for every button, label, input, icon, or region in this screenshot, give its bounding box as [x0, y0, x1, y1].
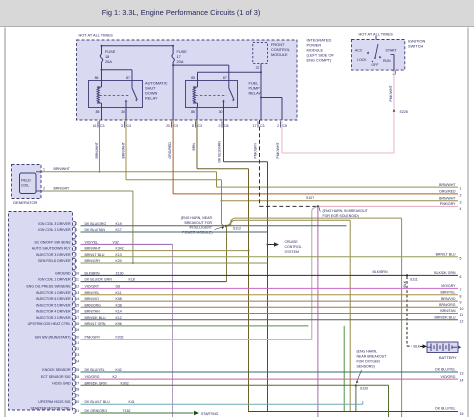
- relay K2 coil: [193, 81, 198, 108]
- svg-text:7: 7: [75, 253, 77, 257]
- svg-text:PNK/GRY: PNK/GRY: [440, 202, 456, 206]
- svg-text:LOCK: LOCK: [357, 58, 367, 62]
- relay K1 automatic shut down relay: [89, 76, 143, 114]
- wire PNK/WHT from 2C8 to ignition switch: [282, 70, 394, 153]
- svg-text:87: 87: [223, 76, 227, 80]
- svg-text:7: 7: [460, 288, 462, 292]
- splice S112 star: [222, 220, 241, 282]
- IPM label text: [307, 38, 335, 63]
- svg-text:13: 13: [460, 372, 464, 376]
- svg-text:RUN: RUN: [383, 59, 391, 63]
- svg-text:RELAY: RELAY: [145, 96, 158, 101]
- svg-text:BLK/BRN: BLK/BRN: [373, 270, 388, 274]
- PCM pin 2: [38, 221, 346, 226]
- svg-text:BRN/GRY: BRN/GRY: [54, 186, 71, 190]
- wire bottom right to edge 15: [249, 407, 459, 412]
- wire VIO/YEL branch down: [172, 244, 174, 417]
- svg-text:BLK/DK GRN: BLK/DK GRN: [434, 271, 456, 275]
- svg-text:POWER MODULE): POWER MODULE): [182, 231, 212, 235]
- svg-text:RELAY: RELAY: [249, 91, 262, 96]
- starting arrow: [194, 411, 219, 416]
- svg-text:4: 4: [75, 234, 77, 238]
- svg-text:2: 2: [43, 187, 45, 191]
- wire VIO/GRY branch down: [317, 207, 319, 417]
- right edge wire 10 label: [439, 303, 463, 311]
- svg-text:5: 5: [460, 256, 462, 260]
- svg-text:30: 30: [121, 110, 125, 114]
- wire DK BLU/GRN fuel pump feed from 2C8: [224, 120, 268, 412]
- svg-text:MODULE: MODULE: [271, 52, 288, 57]
- svg-text:20A: 20A: [177, 59, 184, 64]
- svg-text:C3: C3: [260, 124, 265, 128]
- svg-text:3: 3: [460, 200, 462, 204]
- wire branch to C8 pin2 ignition feed: [260, 97, 282, 121]
- svg-text:23: 23: [75, 353, 79, 357]
- svg-text:BLK: BLK: [403, 280, 407, 287]
- svg-text:IGN COIL 3 DRIVER: IGN COIL 3 DRIVER: [38, 222, 71, 226]
- svg-text:ECT SENSOR SIG: ECT SENSOR SIG: [41, 375, 71, 379]
- front control module U2: [253, 42, 291, 70]
- svg-text:27: 27: [75, 381, 79, 385]
- svg-text:NEAR BREAKOUT: NEAR BREAKOUT: [357, 355, 388, 359]
- right edge wire 12 label: [434, 315, 463, 323]
- svg-text:24: 24: [75, 359, 79, 363]
- svg-text:SYSTEM: SYSTEM: [285, 250, 299, 254]
- wire BLK dashed from S111 to battery: [407, 277, 427, 349]
- cruise control branch arrow: [267, 240, 302, 254]
- svg-text:20: 20: [75, 336, 79, 340]
- PCM pin 10: [55, 271, 407, 276]
- header bar: [0, 0, 474, 27]
- svg-text:3: 3: [75, 228, 77, 232]
- splice S107: [306, 196, 319, 208]
- svg-text:1: 1: [460, 187, 462, 191]
- svg-text:DK BLU/YEL: DK BLU/YEL: [435, 407, 455, 411]
- svg-text:STARTER MOTOR CTRL: STARTER MOTOR CTRL: [30, 406, 70, 410]
- svg-text:S228: S228: [400, 110, 408, 114]
- label breakout EGR: [319, 208, 368, 219]
- svg-text:2: 2: [460, 194, 462, 198]
- svg-text:INJECTOR 3 DRIVER: INJECTOR 3 DRIVER: [36, 253, 71, 257]
- fuse F18: [100, 46, 116, 81]
- svg-text:INJECTOR 2 DRIVER: INJECTOR 2 DRIVER: [36, 316, 71, 320]
- ignition switch positions: [355, 36, 398, 74]
- svg-text:C3: C3: [174, 124, 179, 128]
- svg-text:SENSORS): SENSORS): [357, 365, 375, 369]
- svg-text:ENG OIL PRESS SW/SENS: ENG OIL PRESS SW/SENS: [26, 285, 71, 289]
- svg-text:Fig 1: 3.3L, Engine Performanc: Fig 1: 3.3L, Engine Performance Circuits…: [102, 8, 261, 17]
- PCM pin 8: [38, 259, 268, 264]
- right edge wire 5 label: [436, 253, 462, 261]
- svg-text:87: 87: [126, 76, 130, 80]
- wire BRN/WHT S112 branch upper to right: [226, 218, 402, 417]
- svg-text:14: 14: [460, 379, 464, 383]
- right edge wire 14 label: [441, 375, 464, 383]
- svg-text:10: 10: [75, 272, 79, 276]
- relay K2 name label: [249, 81, 262, 96]
- PCM pin 26: [41, 375, 458, 380]
- bus wire hot feed: [101, 45, 175, 47]
- PCM pin 16: [36, 309, 458, 314]
- vertical wire colour labels under IPM: [95, 85, 393, 163]
- svg-text:BRN/WHT: BRN/WHT: [122, 141, 126, 158]
- svg-text:SC ON/OFF SW SENS: SC ON/OFF SW SENS: [34, 241, 71, 245]
- svg-text:86: 86: [191, 110, 195, 114]
- PCM pin 6: [32, 246, 249, 251]
- svg-text:BLK: BLK: [414, 345, 421, 349]
- svg-text:KNOCK SENSOR: KNOCK SENSOR: [42, 368, 71, 372]
- svg-text:12: 12: [460, 319, 464, 323]
- svg-text:FOR EGR SOLENOID): FOR EGR SOLENOID): [323, 214, 359, 218]
- PCM pin 9: [73, 265, 77, 270]
- svg-text:INJECTOR 5 DRIVER: INJECTOR 5 DRIVER: [36, 303, 71, 307]
- svg-text:8: 8: [192, 124, 194, 128]
- PCM pin 23: [73, 353, 79, 358]
- svg-text:K41: K41: [129, 400, 135, 404]
- svg-text:INJECTOR 1 DRIVER: INJECTOR 1 DRIVER: [36, 291, 71, 295]
- svg-text:S112: S112: [233, 227, 241, 231]
- PCM pin 30: [38, 400, 363, 405]
- wire fuse18 branch to relay contacts: [101, 69, 133, 81]
- svg-text:BATTERY: BATTERY: [439, 355, 457, 360]
- svg-text:S120: S120: [360, 387, 368, 391]
- svg-text:BRN/WHT: BRN/WHT: [439, 183, 456, 187]
- svg-text:GEN FIELD DRIVER: GEN FIELD DRIVER: [38, 259, 71, 263]
- svg-text:BRN/WHT: BRN/WHT: [85, 247, 102, 251]
- svg-text:11: 11: [75, 278, 79, 282]
- svg-text:K12: K12: [116, 316, 122, 320]
- PCM pin 3: [38, 228, 267, 233]
- svg-text:85: 85: [96, 110, 100, 114]
- relay K2 pin 86 lead: [196, 108, 198, 121]
- PCM pin 31: [73, 409, 194, 414]
- svg-text:GENERATOR: GENERATOR: [13, 200, 37, 205]
- svg-text:ORG/RED: ORG/RED: [439, 190, 456, 194]
- PCM pin 19: [73, 328, 79, 333]
- wire BRN/WHT generator field net: [43, 167, 459, 187]
- wire BRN/WHT from 16C3 to generator line: [99, 120, 101, 172]
- svg-text:8: 8: [75, 259, 77, 263]
- generator G1 field coil: [12, 165, 46, 206]
- right edge wire 7 label: [441, 284, 462, 292]
- relay K1 name label: [145, 81, 168, 101]
- svg-text:BRN/YEL: BRN/YEL: [441, 291, 456, 295]
- svg-text:BRN/WHT: BRN/WHT: [54, 167, 71, 171]
- PCM pin 15: [36, 303, 458, 308]
- svg-text:16: 16: [93, 124, 97, 128]
- svg-text:12: 12: [75, 285, 79, 289]
- wire fuse17 branch to fuel pump relay contact: [172, 64, 229, 80]
- wire BRN/WHT from 3C4: [126, 120, 458, 224]
- right edge wire 9 label: [441, 297, 461, 305]
- svg-text:BRN/WHT: BRN/WHT: [439, 196, 456, 200]
- svg-text:11: 11: [460, 313, 464, 317]
- svg-text:3: 3: [121, 124, 123, 128]
- svg-text:ACC: ACC: [355, 49, 363, 53]
- IPM connector exits: [93, 121, 287, 128]
- svg-text:BRN/VIO: BRN/VIO: [441, 297, 456, 301]
- svg-text:C3: C3: [100, 124, 105, 128]
- svg-text:HOT AT ALL TIMES: HOT AT ALL TIMES: [359, 32, 394, 37]
- svg-text:28: 28: [75, 388, 79, 392]
- svg-text:HO2S GND: HO2S GND: [52, 381, 71, 385]
- svg-text:14: 14: [75, 297, 79, 301]
- svg-text:2: 2: [277, 124, 279, 128]
- svg-text:(ENG HARN, IN BREAKOUT: (ENG HARN, IN BREAKOUT: [323, 209, 369, 213]
- wire BRN from 8C3: [197, 120, 250, 412]
- right edge wire 11 label: [440, 309, 463, 317]
- svg-text:INJECTOR 6 DRIVER: INJECTOR 6 DRIVER: [36, 297, 71, 301]
- svg-text:UPSTRM O2S HEAT CTRL: UPSTRM O2S HEAT CTRL: [28, 322, 71, 326]
- FCM pin 37 wire to fuel pump relay coil: [198, 64, 263, 120]
- svg-text:2: 2: [219, 124, 221, 128]
- right edge label 6: [434, 271, 461, 279]
- svg-text:21: 21: [75, 341, 79, 345]
- svg-text:BRN/TAN: BRN/TAN: [440, 309, 456, 313]
- relay K2 fuel pump relay: [186, 76, 238, 114]
- battery B1: [427, 342, 462, 360]
- svg-text:HOT AT ALL TIMES: HOT AT ALL TIMES: [79, 33, 114, 38]
- svg-text:DK BLU/YEL: DK BLU/YEL: [435, 368, 455, 372]
- svg-text:AUTO SHUTDOWN RLY: AUTO SHUTDOWN RLY: [32, 247, 71, 251]
- right edge wire 8 label: [441, 291, 462, 299]
- relay K2 armature dashed link: [196, 95, 227, 97]
- svg-text:START: START: [386, 49, 398, 53]
- relay K1 armature dashed link: [100, 95, 130, 97]
- svg-text:IGN COIL 2 DRIVER: IGN COIL 2 DRIVER: [38, 228, 71, 232]
- PCM pin 24: [73, 359, 79, 364]
- svg-text:2: 2: [75, 222, 77, 226]
- svg-text:SWITCH: SWITCH: [408, 44, 424, 49]
- svg-text:BRN/DK BLU: BRN/DK BLU: [85, 316, 106, 320]
- PCM pin 11: [38, 277, 226, 282]
- svg-text:C8: C8: [283, 124, 288, 128]
- wire PNK/GRY from S107 down to PCM pin 20: [312, 206, 318, 339]
- svg-text:PNK/WHT: PNK/WHT: [389, 85, 393, 102]
- wire BRN/GRY generator pin2 net: [43, 186, 134, 264]
- relay K1 pin 30 lead: [125, 108, 127, 121]
- relay K1 contact: [125, 81, 138, 108]
- svg-text:DK BLU/LT BLU: DK BLU/LT BLU: [85, 400, 111, 404]
- svg-text:C8: C8: [224, 124, 229, 128]
- svg-text:17: 17: [253, 124, 257, 128]
- PCM pin 21: [73, 340, 79, 345]
- fuse F17: [172, 46, 187, 120]
- svg-text:15: 15: [460, 412, 464, 416]
- svg-text:30: 30: [219, 110, 223, 114]
- svg-text:DK BLU/ORG: DK BLU/ORG: [85, 222, 107, 226]
- svg-text:PNK/GRY: PNK/GRY: [254, 142, 258, 158]
- svg-text:INJECTOR 4 DRIVER: INJECTOR 4 DRIVER: [36, 310, 71, 314]
- svg-text:15: 15: [75, 303, 79, 307]
- PCM pin 4: [73, 234, 77, 239]
- label breakout IPM: [181, 216, 225, 234]
- wire ORG/RED from fuse 17 to right edge 2: [173, 120, 458, 194]
- PCM pin 27: [52, 381, 388, 417]
- svg-text:S111: S111: [410, 278, 418, 282]
- svg-text:37: 37: [256, 66, 260, 70]
- right edge wire 13 label: [435, 368, 463, 376]
- svg-text:13: 13: [75, 291, 79, 295]
- svg-text:(ENG HARN, NEAR: (ENG HARN, NEAR: [181, 216, 213, 220]
- relay K2 pin 30 lead: [223, 108, 225, 121]
- svg-text:COIL: COIL: [21, 184, 29, 188]
- svg-text:DK BLU/GRN: DK BLU/GRN: [218, 141, 222, 163]
- left pane border: [4, 28, 6, 417]
- svg-text:ORG/RED: ORG/RED: [168, 142, 172, 159]
- PCM pin 5: [34, 240, 172, 245]
- right edge labels 1-4: [439, 183, 461, 211]
- splice S111: [373, 270, 418, 288]
- svg-text:19: 19: [75, 328, 79, 332]
- svg-text:K342: K342: [116, 247, 124, 251]
- wire BRN/LT GRN O2 heater net lower run: [343, 326, 345, 412]
- ignition switch S1: [352, 32, 426, 71]
- PCM pin 28: [73, 387, 79, 392]
- svg-text:26: 26: [75, 375, 79, 379]
- svg-text:IGN COIL 1 DRIVER: IGN COIL 1 DRIVER: [38, 278, 71, 282]
- integrated power module box (IPM): [77, 33, 298, 121]
- svg-text:VIO/GRY: VIO/GRY: [441, 284, 456, 288]
- svg-text:BRN/ORG: BRN/ORG: [439, 303, 456, 307]
- svg-text:C3: C3: [198, 124, 203, 128]
- svg-text:4: 4: [460, 207, 462, 211]
- svg-text:FOR OXYGEN: FOR OXYGEN: [357, 360, 381, 364]
- right pane border: [467, 28, 469, 417]
- PCM pin 13: [36, 290, 458, 295]
- svg-text:CONTROL: CONTROL: [285, 245, 302, 249]
- svg-text:86: 86: [95, 76, 99, 80]
- svg-text:25: 25: [75, 368, 79, 372]
- PCM pin 14: [36, 297, 458, 302]
- svg-text:PNK/WHT: PNK/WHT: [276, 142, 280, 159]
- svg-text:CRUISE: CRUISE: [285, 240, 299, 244]
- svg-text:BRN: BRN: [192, 143, 196, 151]
- svg-text:85: 85: [191, 76, 195, 80]
- PCM pin 25: [42, 368, 458, 373]
- svg-text:9: 9: [75, 265, 77, 269]
- wire PNK/GRY from S107 to right edge 4: [318, 205, 458, 207]
- svg-text:29: 29: [75, 394, 79, 398]
- svg-text:30: 30: [75, 400, 79, 404]
- svg-text:BRN/LT BLU: BRN/LT BLU: [436, 253, 456, 257]
- splice S120: [355, 384, 369, 412]
- svg-text:31: 31: [75, 409, 79, 413]
- svg-text:1: 1: [43, 168, 45, 172]
- svg-text:8: 8: [460, 294, 462, 298]
- svg-text:16: 16: [75, 310, 79, 314]
- svg-text:25A: 25A: [105, 59, 112, 64]
- svg-text:10: 10: [460, 307, 464, 311]
- svg-text:ENG COMPT): ENG COMPT): [307, 58, 333, 63]
- svg-text:K19: K19: [116, 222, 122, 226]
- wire BLK/DK GRN from S111 to right edge 6: [407, 274, 458, 276]
- svg-text:UPSTRM HO2S SIG: UPSTRM HO2S SIG: [38, 400, 71, 404]
- PCM pin 17: [36, 315, 458, 320]
- svg-text:BRN/DK BLU: BRN/DK BLU: [434, 315, 455, 319]
- relay K1 pin 85 lead: [101, 108, 103, 121]
- svg-text:17: 17: [75, 316, 79, 320]
- wire PNK/GRY dashed from 17C3 to S107: [260, 120, 318, 206]
- PCM powertrain control module box: [9, 212, 73, 411]
- svg-text:C4: C4: [127, 124, 132, 128]
- PCM pin 7: [36, 252, 458, 257]
- label breakout oxygen sensors: [356, 350, 387, 384]
- PCM pin 18: [28, 322, 309, 327]
- PCM pin 29: [73, 393, 79, 398]
- svg-text:6: 6: [75, 247, 77, 251]
- relay K1 coil: [97, 81, 102, 108]
- svg-text:S107: S107: [306, 196, 314, 200]
- PCM pin 22: [73, 347, 79, 352]
- svg-text:BRN/WHT: BRN/WHT: [95, 141, 99, 158]
- PCM pin 20: [35, 335, 312, 340]
- svg-text:GROUND: GROUND: [55, 272, 71, 276]
- PCM pin 12: [26, 284, 458, 289]
- svg-text:5: 5: [75, 241, 77, 245]
- splice S228: [393, 109, 408, 114]
- svg-text:9: 9: [460, 301, 462, 305]
- svg-text:18: 18: [75, 322, 79, 326]
- svg-text:6: 6: [460, 275, 462, 279]
- svg-text:20: 20: [166, 124, 170, 128]
- svg-text:IGN SW (RUN/START): IGN SW (RUN/START): [35, 336, 71, 340]
- svg-text:STARTING: STARTING: [201, 412, 219, 416]
- wire BRN/WHT S112 branch lower to right: [226, 220, 350, 412]
- svg-text:OFF: OFF: [372, 63, 379, 67]
- svg-text:FIELD: FIELD: [21, 179, 31, 183]
- svg-text:(ENG HARN,: (ENG HARN,: [357, 350, 378, 354]
- svg-text:VIO/ORG: VIO/ORG: [441, 375, 456, 379]
- svg-text:22: 22: [75, 347, 79, 351]
- relay K2 contact: [222, 81, 234, 108]
- svg-text:BREAKOUT FOR: BREAKOUT FOR: [184, 221, 212, 225]
